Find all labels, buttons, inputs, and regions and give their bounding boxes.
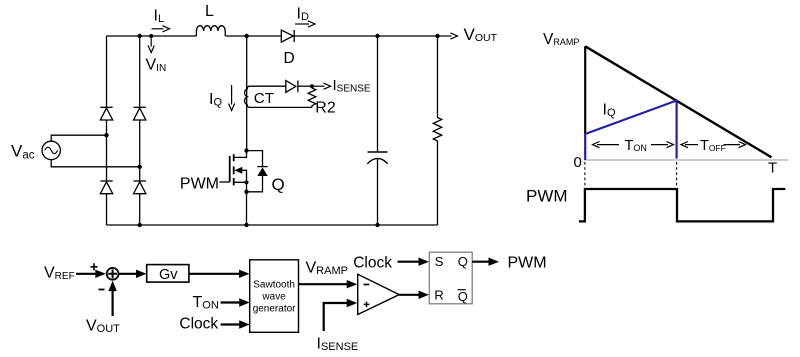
svg-text:S: S bbox=[435, 254, 444, 269]
node Isense bbox=[310, 84, 314, 88]
arrow TOFF right bbox=[724, 142, 746, 148]
node load top bbox=[435, 34, 439, 38]
node cap top bbox=[375, 34, 379, 38]
transistor Q MOSFET bbox=[220, 151, 247, 192]
node VIN tap bbox=[149, 34, 153, 38]
dashed line at ton end bbox=[676, 162, 678, 187]
node MOSFET drain bbox=[244, 148, 248, 152]
arrow to Gv bbox=[119, 270, 147, 278]
bridge diode D2 bbox=[134, 107, 146, 120]
arrow comparator to latch R bbox=[399, 291, 429, 299]
arrow Clock input bbox=[221, 320, 250, 328]
svg-text:Q: Q bbox=[272, 175, 285, 194]
arrow VIN bbox=[148, 37, 154, 53]
block sawtooth generator bbox=[250, 260, 299, 333]
waveform IQ trace blue bbox=[585, 101, 676, 161]
resistor R2 bbox=[308, 86, 316, 107]
node inductor/CT bbox=[245, 34, 249, 38]
diode CT sense bbox=[286, 81, 312, 93]
wire left bridge leg bbox=[106, 36, 108, 225]
label plus sign bbox=[91, 263, 98, 270]
ac source Vac bbox=[42, 141, 60, 159]
arrow VOUT feedback bbox=[108, 281, 116, 316]
svg-text:Q: Q bbox=[458, 254, 468, 269]
node MOSFET source bbox=[244, 190, 248, 194]
svg-text:Clock: Clock bbox=[353, 254, 392, 271]
node bridge bottom bbox=[138, 223, 142, 227]
node cap bottom bbox=[375, 223, 379, 227]
diode D bbox=[281, 30, 294, 42]
node ac tap right bbox=[138, 165, 142, 169]
dashed line at t0 bbox=[584, 162, 586, 187]
comparator U1 bbox=[358, 274, 400, 314]
wire VRAMP to comparator bbox=[299, 280, 358, 288]
node bridge top bbox=[138, 34, 142, 38]
arrow IL bbox=[152, 26, 170, 32]
arrow VREF in bbox=[76, 270, 106, 278]
arrow Clock to latch S bbox=[398, 258, 430, 266]
arrow IQ bbox=[229, 85, 235, 111]
label comparator plus bbox=[364, 302, 370, 308]
body diode of Q bbox=[247, 151, 268, 192]
arrow latch Q to PWM bbox=[472, 258, 499, 266]
svg-text:CT: CT bbox=[254, 90, 274, 107]
wire ac bottom lead bbox=[51, 160, 140, 167]
block Gv bbox=[147, 265, 189, 283]
waveform ramp VRAMP bbox=[585, 46, 771, 157]
svg-text:R2: R2 bbox=[315, 100, 336, 117]
summing junction bbox=[107, 268, 119, 280]
label comparator minus bbox=[364, 284, 370, 286]
svg-text:D: D bbox=[284, 50, 295, 67]
wire CT sense top bbox=[250, 85, 286, 87]
wire ISENSE to comparator bbox=[324, 299, 358, 331]
svg-text:T: T bbox=[768, 160, 777, 177]
wire CT primary bbox=[246, 36, 248, 151]
svg-text:0: 0 bbox=[574, 154, 582, 171]
arrow TOFF left bbox=[681, 142, 698, 148]
wire right bridge leg bbox=[139, 36, 141, 225]
arrow VOUT bbox=[438, 33, 458, 39]
bridge diode D4 bbox=[134, 181, 146, 194]
label Qbar bbox=[458, 289, 468, 304]
arrow Gv to sawtooth bbox=[189, 270, 250, 278]
current transformer CT secondary bbox=[245, 86, 250, 107]
svg-text:Clock: Clock bbox=[179, 316, 218, 333]
load resistor bbox=[433, 36, 441, 225]
svg-text:PWM: PWM bbox=[180, 176, 219, 193]
waveform axis black part bbox=[584, 46, 586, 134]
wire source to rail bbox=[246, 192, 248, 225]
svg-text:PWM: PWM bbox=[526, 187, 568, 206]
waveform baseline bbox=[584, 159, 788, 161]
arrow TON left bbox=[593, 142, 620, 148]
arrow TON input bbox=[221, 298, 250, 306]
svg-text:L: L bbox=[205, 3, 214, 20]
arrow Isense bbox=[312, 83, 331, 89]
node MOSFET source stub bbox=[244, 180, 248, 184]
node source rail bbox=[244, 223, 248, 227]
label minus sign bbox=[99, 289, 105, 291]
bridge diode D3 bbox=[100, 181, 112, 194]
arrow TON right bbox=[651, 142, 674, 148]
svg-text:PWM: PWM bbox=[508, 254, 547, 271]
waveform PWM trace bbox=[579, 189, 785, 221]
bridge diode D1 bbox=[100, 107, 112, 120]
inductor L bbox=[196, 26, 225, 36]
wire ac top lead bbox=[51, 135, 106, 141]
latch SR flip-flop bbox=[429, 252, 472, 304]
node ac tap left bbox=[104, 133, 108, 137]
wire bottom rail bbox=[107, 224, 438, 226]
arrow ID bbox=[295, 21, 315, 27]
svg-text:Gv: Gv bbox=[159, 267, 178, 283]
output capacitor bbox=[367, 36, 387, 225]
wire CT sense bottom bbox=[250, 106, 313, 108]
svg-text:R: R bbox=[434, 287, 443, 302]
wire top rail bbox=[107, 35, 438, 37]
svg-text:Q: Q bbox=[458, 289, 468, 304]
